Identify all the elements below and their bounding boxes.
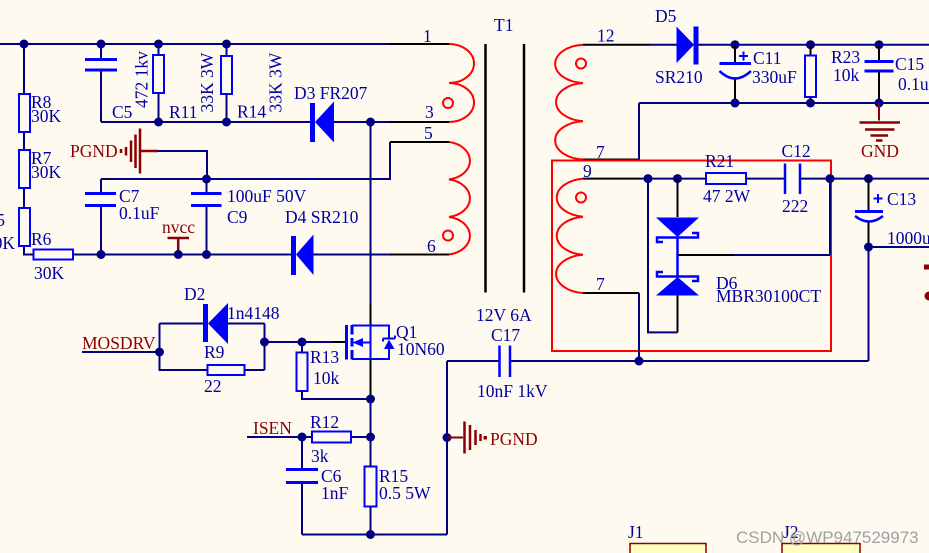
diode D5 SR210 <box>650 6 735 87</box>
wire D6 common cathode <box>676 238 679 277</box>
resistor R5 (labels cut at edge) <box>0 208 30 253</box>
svg-text:10k: 10k <box>833 65 860 85</box>
svg-text:33K 3W: 33K 3W <box>197 52 217 112</box>
pin 1 <box>390 26 449 46</box>
svg-text:0.1uF: 0.1uF <box>119 203 160 223</box>
svg-text:GND: GND <box>861 141 899 161</box>
svg-text:3: 3 <box>425 102 434 122</box>
transformer winding 5-6 <box>449 142 470 255</box>
wire output rail right <box>830 178 929 180</box>
svg-text:30K: 30K <box>34 263 65 283</box>
wire top rail primary <box>0 43 390 45</box>
svg-text:1: 1 <box>423 26 432 46</box>
resistor R9 <box>160 324 265 397</box>
transformer T1 core <box>486 44 525 293</box>
transistor Q1 10N60 <box>347 325 396 360</box>
svg-text:R13: R13 <box>310 347 339 367</box>
svg-text:D3 FR207: D3 FR207 <box>294 83 368 103</box>
svg-text:R14: R14 <box>237 102 266 122</box>
svg-text:R12: R12 <box>310 412 339 432</box>
capacitor C11 <box>720 45 798 103</box>
svg-text:C5: C5 <box>112 102 133 122</box>
wire pin3 to drain junction <box>366 118 375 127</box>
svg-text:0.5 5W: 0.5 5W <box>379 483 431 503</box>
diode D6 bottom half <box>656 272 821 332</box>
svg-text:CSDN @WP947529973: CSDN @WP947529973 <box>736 528 919 547</box>
red highlight box <box>552 161 831 352</box>
svg-text:472 1kv: 472 1kv <box>132 51 152 108</box>
svg-text:1n4148: 1n4148 <box>227 303 280 323</box>
svg-text:PGND: PGND <box>490 429 538 449</box>
transformer polarity dot pin9 <box>576 193 586 203</box>
wire bottom return rail <box>447 360 869 362</box>
resistor R12 <box>302 412 375 466</box>
diode D2 1n4148 <box>160 284 280 344</box>
transformer polarity dot pin6 <box>443 231 453 241</box>
resistor R11 <box>153 44 217 122</box>
power GND <box>860 103 901 161</box>
wire secondary return rail <box>639 103 929 160</box>
wire C7-C9 top rail and pin5 elbow <box>101 142 390 179</box>
transformer winding 9-7 <box>556 179 583 293</box>
capacitor C12 <box>782 141 831 216</box>
net MOSDRV <box>82 333 164 357</box>
svg-text:0.1uF: 0.1uF <box>898 74 929 94</box>
connector J2 <box>782 522 860 553</box>
transformer polarity dot pin12 <box>576 59 586 69</box>
pin 7 lower <box>583 274 639 294</box>
svg-text:330uF: 330uF <box>752 67 797 87</box>
connector J1 <box>628 522 706 553</box>
wire bottom primary rail <box>73 254 390 256</box>
svg-text:9: 9 <box>583 161 592 181</box>
capacitor C6 <box>286 437 349 535</box>
transformer winding 12-7 <box>555 45 583 160</box>
resistor R23 <box>805 45 860 103</box>
svg-text:33K 3W: 33K 3W <box>266 52 286 112</box>
wire secondary top rail <box>735 44 929 46</box>
svg-text:22: 22 <box>204 376 222 396</box>
svg-text:10k: 10k <box>313 368 340 388</box>
svg-text:PGND: PGND <box>70 141 118 161</box>
svg-text:1000uF: 1000uF <box>887 228 929 248</box>
pin 12 <box>583 26 650 46</box>
capacitor C15 <box>865 45 929 103</box>
svg-text:6: 6 <box>427 236 436 256</box>
pin 3 <box>390 102 449 122</box>
pin 6 <box>390 236 449 256</box>
svg-text:J1: J1 <box>628 522 644 542</box>
diode D4 SR210 <box>285 207 359 275</box>
resistor R14 <box>221 44 286 122</box>
svg-text:D5: D5 <box>655 6 677 26</box>
svg-text:ISEN: ISEN <box>253 418 292 438</box>
capacitor C7 <box>85 179 160 255</box>
resistor R13 <box>297 342 371 399</box>
svg-text:10nF 1kV: 10nF 1kV <box>477 381 548 401</box>
wire D6 cathode to output rail <box>829 179 831 255</box>
svg-text:C12: C12 <box>782 141 811 161</box>
svg-text:T1: T1 <box>494 15 513 35</box>
svg-text:10N60: 10N60 <box>397 339 445 359</box>
power PGND right <box>443 422 538 454</box>
wire bottom ground rail <box>302 534 447 536</box>
svg-text:C13: C13 <box>887 189 916 209</box>
svg-text:MOSDRV: MOSDRV <box>82 333 156 353</box>
resistor R7 <box>19 148 62 188</box>
node top rail junction dots <box>20 40 232 49</box>
svg-text:100uF 50V: 100uF 50V <box>227 186 307 206</box>
svg-text:5: 5 <box>424 123 433 143</box>
resistor R15 <box>365 437 432 535</box>
resistor R8 <box>19 92 62 132</box>
svg-text:R6: R6 <box>31 229 52 249</box>
svg-text:47 2W: 47 2W <box>703 186 751 206</box>
svg-text:R21: R21 <box>705 151 734 171</box>
svg-text:nvcc: nvcc <box>162 217 195 237</box>
svg-text:7: 7 <box>596 142 605 162</box>
net ISEN <box>247 418 307 442</box>
svg-text:C11: C11 <box>753 48 782 68</box>
resistor R21 <box>703 151 785 206</box>
capacitor C17 <box>477 325 548 401</box>
pin 7 upper <box>583 142 639 162</box>
svg-text:0K: 0K <box>0 233 15 253</box>
capacitor C13 <box>855 179 929 248</box>
wire pin9 to bottom anode loop <box>648 179 678 333</box>
wire pin9 rail <box>640 178 706 180</box>
svg-text:D4 SR210: D4 SR210 <box>285 207 359 227</box>
net fragment right edge <box>924 265 929 270</box>
wire R-chain vertical <box>24 44 34 255</box>
capacitor C9 <box>191 179 307 255</box>
pin 9 <box>583 161 640 181</box>
svg-text:D2: D2 <box>184 284 205 304</box>
power PGND left <box>70 129 207 180</box>
transformer winding 1-3 <box>449 44 474 122</box>
wire snubber bottom rail <box>101 121 310 123</box>
transformer polarity dot pin3 <box>443 98 453 108</box>
svg-text:SR210: SR210 <box>655 67 703 87</box>
svg-text:7: 7 <box>596 274 605 294</box>
diode D6 MBR30100CT top half <box>656 179 699 242</box>
wire C17 left down <box>446 361 448 535</box>
svg-text:R9: R9 <box>204 342 225 362</box>
wire gate <box>265 341 333 343</box>
svg-text:3k: 3k <box>311 446 329 466</box>
diode D3 FR207 <box>294 83 449 143</box>
svg-text:MBR30100CT: MBR30100CT <box>716 286 821 306</box>
svg-text:12V 6A: 12V 6A <box>476 305 532 325</box>
pin 5 <box>390 123 449 143</box>
svg-text:12: 12 <box>597 26 615 46</box>
power nvcc <box>162 217 195 255</box>
wire drain vertical <box>370 122 372 304</box>
wire output return vertical <box>868 247 870 361</box>
svg-text:C9: C9 <box>227 207 248 227</box>
svg-text:30K: 30K <box>31 162 62 182</box>
wire pin7 lower to return <box>638 293 640 361</box>
wire source <box>370 359 372 399</box>
svg-text:222: 222 <box>782 196 808 216</box>
svg-text:1nF: 1nF <box>321 483 349 503</box>
svg-text:R11: R11 <box>169 102 198 122</box>
svg-text:30K: 30K <box>31 106 62 126</box>
resistor R6 <box>31 229 73 283</box>
svg-text:C15: C15 <box>895 54 924 74</box>
wire C13 bottom rail to edge <box>869 246 929 248</box>
capacitor C5 <box>85 44 152 122</box>
svg-text:5: 5 <box>0 210 5 230</box>
svg-text:C17: C17 <box>491 325 520 345</box>
svg-text:R23: R23 <box>831 47 860 67</box>
